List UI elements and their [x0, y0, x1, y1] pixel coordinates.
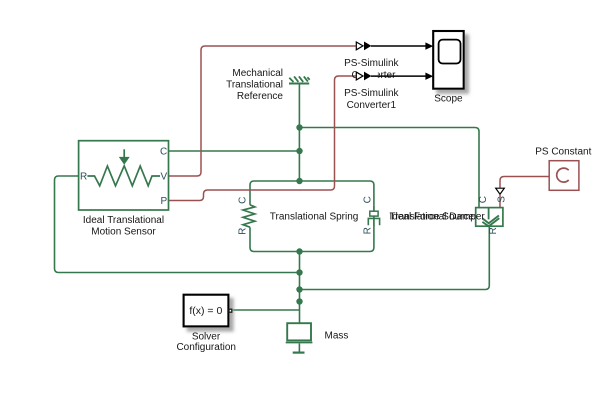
svg-text:R: R — [80, 172, 87, 183]
junction dot (299.5,251.5) — [296, 248, 302, 254]
svg-text:Translational Damper: Translational Damper — [390, 212, 486, 223]
block: Ideal Force Source — [476, 196, 508, 235]
wire: PS Constant to force source S port (dark red) — [500, 177, 549, 188]
wire: lower trunk from loop bottom to Mass port — [299, 252, 301, 323]
wire: solver configuration port to trunk (y=310) — [233, 309, 300, 311]
junction dot (299.5,127.5) — [296, 124, 302, 130]
block: Mass — [286, 323, 313, 352]
sensor icon zigzag — [87, 166, 160, 186]
junction dot (299.5,301.5) — [296, 298, 302, 304]
svg-text:Translational: Translational — [226, 80, 283, 91]
svg-text:PS-Simulink: PS-Simulink — [344, 58, 399, 69]
wire: loop top-left to spring C side — [250, 181, 300, 205]
converter 1 glyphs (PS-Simulink Converter) — [356, 40, 378, 52]
wire: branch y=289.5 from trunk to force source R port — [300, 226, 490, 290]
block: Translational Damper icon — [363, 196, 380, 234]
sensor icon arrow — [123, 149, 125, 157]
svg-text:V: V — [161, 172, 168, 183]
converter 2 glyphs (PS-Simulink Converter1) — [356, 70, 378, 82]
damper cylinder cap — [368, 218, 379, 225]
wire: sensor V port up to PS-Simulink Converter (dark red) — [169, 46, 357, 176]
junction dot (299.5,181) — [296, 178, 302, 184]
solver port square — [229, 309, 232, 312]
svg-text:C: C — [160, 147, 167, 158]
block: Solver Configuration — [184, 295, 232, 327]
wire: damper R side down to loop bottom-right — [300, 226, 374, 252]
svg-text:Configuration: Configuration — [176, 342, 235, 353]
svg-text:P: P — [161, 196, 168, 207]
PS arrow into S port (open triangle) — [496, 188, 505, 194]
svg-text:PS-Simulink: PS-Simulink — [344, 88, 399, 99]
block: Scope — [433, 31, 464, 89]
svg-text:R: R — [488, 227, 499, 234]
svg-text:PS Constant: PS Constant — [535, 146, 591, 157]
svg-text:C: C — [478, 196, 489, 203]
junction dot (299.5,289.5) — [296, 286, 302, 292]
damper rod lower — [373, 216, 375, 226]
svg-text:Solver: Solver — [192, 332, 221, 343]
junction dot (299.5,151) — [296, 148, 302, 154]
svg-text:Reference: Reference — [237, 91, 284, 102]
svg-text:C: C — [363, 196, 374, 203]
svg-text:Mass: Mass — [325, 331, 349, 342]
svg-text:S: S — [496, 196, 507, 203]
svg-text:f(x) = 0: f(x) = 0 — [189, 305, 222, 317]
svg-text:C: C — [237, 197, 248, 204]
wire: ground trunk vertical (green, x=299.4, y 83.5-181) — [298, 84, 300, 182]
block: Translational Spring icon — [237, 197, 254, 235]
svg-text:Scope: Scope — [434, 93, 463, 104]
wire: sensor R port left rail down to trunk (green) — [55, 176, 300, 273]
svg-text:Motion Sensor: Motion Sensor — [91, 227, 156, 238]
junction dot (299.5,272.5) — [296, 269, 302, 275]
block: Ideal Translational Motion Sensor — [79, 141, 169, 210]
scope input arrowhead 1 — [425, 42, 433, 49]
force source icon: rod and double chevron — [488, 208, 490, 220]
svg-text:R: R — [363, 227, 374, 234]
signal line: converter 2 to Scope — [371, 75, 427, 77]
svg-text:Ideal Translational: Ideal Translational — [83, 215, 164, 226]
wire: stub from arrow to S port — [499, 195, 501, 208]
scope input arrowhead 2 — [425, 73, 433, 80]
svg-text:Translational Spring: Translational Spring — [270, 212, 359, 223]
damper piston — [370, 211, 378, 216]
svg-text:Mechanical: Mechanical — [232, 68, 283, 79]
wire: spring R side down to loop bottom-left — [250, 227, 300, 251]
wire: loop top-right to damper C side — [300, 181, 374, 205]
block: PS Constant — [549, 161, 579, 191]
wire: branch y=127.5 from trunk to force source C port — [300, 128, 480, 208]
wire: sensor C port to trunk node (green, y=151) — [169, 150, 300, 152]
block: Mechanical Translational Reference (ground) — [289, 76, 310, 83]
signal line: converter 1 to Scope — [371, 45, 427, 47]
wire: sensor P port jog and up to PS-Simulink Converter1 (dark red) — [169, 76, 357, 201]
svg-text:R: R — [237, 228, 248, 235]
svg-text:Converter1: Converter1 — [347, 100, 397, 111]
